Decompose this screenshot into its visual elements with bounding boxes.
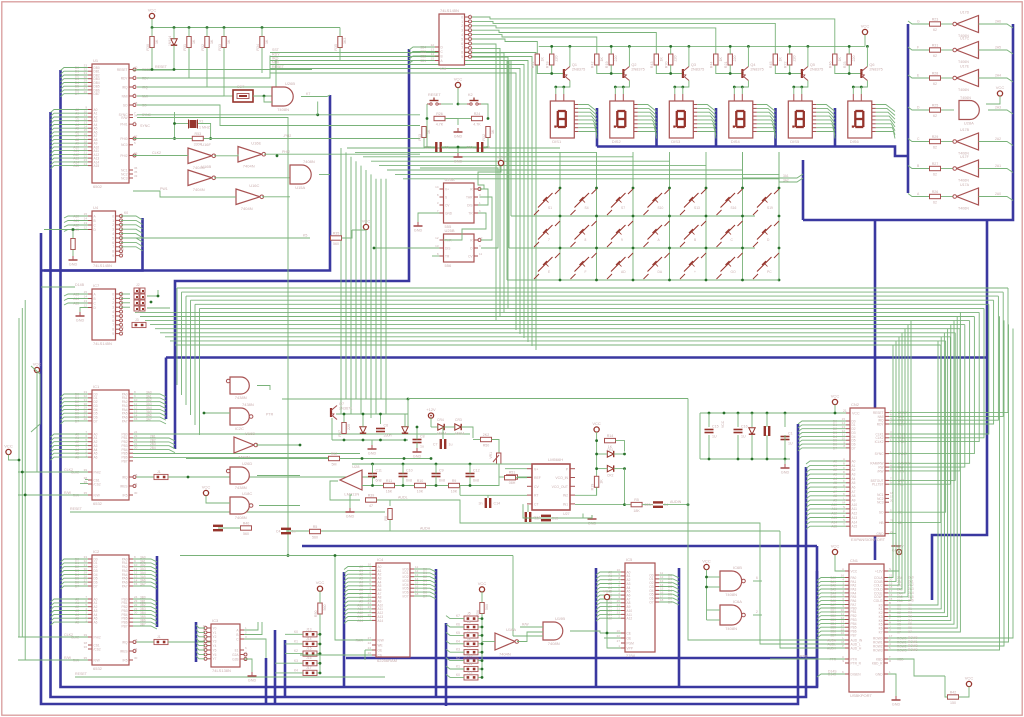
svg-text:F: F xyxy=(843,479,845,483)
resistor R23 220 xyxy=(847,54,851,65)
svg-text:C5: C5 xyxy=(444,146,449,150)
wire ram d5 xyxy=(414,588,436,591)
svg-text:G2A: G2A xyxy=(232,653,239,657)
bus display comb 4 xyxy=(774,108,777,147)
wire collector 1 xyxy=(615,81,629,88)
wire display vcc drop xyxy=(864,35,866,47)
svg-text:R19: R19 xyxy=(605,61,609,68)
wire riot1 PA0 xyxy=(133,394,166,397)
svg-text:U28A: U28A xyxy=(964,121,974,126)
wire IC2 D4 entry xyxy=(61,574,89,577)
svg-text:30: 30 xyxy=(134,491,138,495)
wire ic6 in 3 xyxy=(409,61,435,64)
resistor R24 4.7K xyxy=(472,116,483,120)
svg-text:U17A: U17A xyxy=(960,183,970,187)
wire J6 right xyxy=(478,626,482,628)
svg-text:J9: J9 xyxy=(467,645,471,649)
wire rom a9 xyxy=(596,607,621,610)
wire mid bundle left drop 2 xyxy=(185,296,187,405)
wire ic3 b xyxy=(244,622,262,635)
bus D left vertical xyxy=(61,70,818,687)
wire A1 entry xyxy=(51,113,89,116)
wire seg row mid G xyxy=(941,23,954,25)
junction base 3 xyxy=(729,72,732,75)
wire IC2 D3 entry xyxy=(61,571,89,574)
svg-text:PHI2: PHI2 xyxy=(94,470,101,474)
wire ic3 y5 xyxy=(196,647,205,650)
wire mid bundle left drop 0 xyxy=(176,288,178,385)
bus K7 vertical xyxy=(44,95,330,271)
svg-text:2N8375: 2N8375 xyxy=(631,68,644,72)
wire cn2 right 2 xyxy=(889,296,998,420)
wire display top pins 5 xyxy=(852,87,854,94)
svg-text:K2: K2 xyxy=(456,656,460,660)
svg-text:R40: R40 xyxy=(243,521,250,525)
svg-text:A11: A11 xyxy=(852,507,858,511)
svg-text:2: 2 xyxy=(112,223,114,227)
svg-text:PA7: PA7 xyxy=(122,419,128,423)
svg-text:C11: C11 xyxy=(376,469,382,473)
junction decouple xyxy=(708,412,711,415)
svg-text:1N914: 1N914 xyxy=(437,432,447,436)
svg-text:K7: K7 xyxy=(456,614,460,618)
svg-text:R10: R10 xyxy=(417,479,424,483)
svg-text:R18: R18 xyxy=(546,61,550,68)
wire cn2 vcc xyxy=(835,405,846,414)
svg-text:PB7: PB7 xyxy=(121,624,127,628)
ground lm566 xyxy=(591,515,593,519)
wire seg 31 xyxy=(757,108,776,115)
wire cn2 right 3 xyxy=(889,300,994,424)
wire center bundle vertical 7 xyxy=(375,179,377,414)
svg-text:U4: U4 xyxy=(93,205,99,210)
wire seg 05 xyxy=(578,124,597,131)
svg-text:R31: R31 xyxy=(932,43,939,47)
wire A9 entry xyxy=(51,143,89,146)
svg-text:GND: GND xyxy=(346,515,355,519)
wire pullup drop nmi xyxy=(137,48,224,97)
svg-text:U16D: U16D xyxy=(245,431,255,436)
power VCC ic6ab xyxy=(704,564,709,569)
svg-text:220n: 220n xyxy=(425,146,433,150)
capacitor C16 1u xyxy=(734,429,743,431)
svg-text:Y2: Y2 xyxy=(213,635,217,639)
wire riot1 PB2 xyxy=(133,446,175,449)
svg-text:2A5: 2A5 xyxy=(995,46,1001,50)
wire j2 right xyxy=(147,290,158,296)
wire seg 00 xyxy=(578,105,597,112)
wire diode top xyxy=(173,28,175,39)
inverter U16F 7404N xyxy=(188,148,212,164)
junction 555b xyxy=(373,247,376,250)
svg-text:62256RAM: 62256RAM xyxy=(377,658,397,663)
wire center bundle vertical 3 xyxy=(355,161,357,399)
wire riot1 iosz xyxy=(80,483,88,485)
wire ic3 abc xyxy=(244,622,258,630)
wire j13 col xyxy=(319,614,321,673)
display DIS5 xyxy=(788,101,812,138)
resistor R22 220 xyxy=(788,54,792,65)
wire in1 right xyxy=(625,504,632,506)
wire seg 50 xyxy=(876,105,895,112)
wire IC1 D2 entry xyxy=(61,402,89,405)
wire cn2 D4 xyxy=(798,436,846,439)
wire A2 entry xyxy=(51,117,89,120)
svg-text:R20: R20 xyxy=(665,61,669,68)
wire pullup top 4 xyxy=(261,28,263,37)
wire c14 up xyxy=(487,495,489,498)
wire display drive line 1 xyxy=(472,39,537,54)
svg-text:C9: C9 xyxy=(439,469,444,473)
wire ram a5 xyxy=(344,586,372,589)
resistor R25 62 xyxy=(930,108,941,112)
svg-text:74LS145N: 74LS145N xyxy=(93,263,112,268)
wire decouple drop b 738 xyxy=(737,435,739,459)
wire riot1 PA1 xyxy=(133,398,166,401)
wire cr1 right xyxy=(614,453,625,455)
wire IC1 A5 entry xyxy=(51,453,89,456)
svg-text:3n: 3n xyxy=(479,502,483,506)
gate U19D 7438N xyxy=(230,377,249,394)
svg-text:S13: S13 xyxy=(694,206,700,210)
svg-text:150: 150 xyxy=(950,701,956,705)
svg-text:7: 7 xyxy=(112,323,114,327)
wire u19b in2 xyxy=(513,635,543,637)
wire IC1 A2 entry xyxy=(51,442,89,445)
svg-text:9: 9 xyxy=(112,332,114,336)
resistor R40 560 xyxy=(241,526,252,530)
svg-text:R22: R22 xyxy=(784,61,788,68)
svg-text:10: 10 xyxy=(470,48,474,52)
svg-text:R19: R19 xyxy=(590,484,594,491)
svg-text:R23: R23 xyxy=(843,61,847,68)
svg-text:R35: R35 xyxy=(334,44,338,51)
wire r40 xyxy=(218,527,241,529)
bus display comb 2 xyxy=(655,108,658,147)
wire mid bundle left drop 1 xyxy=(181,292,183,395)
svg-text:Y6: Y6 xyxy=(213,653,217,657)
power VCC rom xyxy=(604,594,609,599)
wire seg row in E xyxy=(908,75,929,78)
svg-text:Q5: Q5 xyxy=(810,63,815,67)
wire rt wire xyxy=(488,494,527,496)
svg-text:1U: 1U xyxy=(741,435,746,439)
wire pullup top 1 xyxy=(188,28,190,37)
IC U25B 555 timer xyxy=(444,234,475,262)
resistor R39b 47 xyxy=(366,498,377,502)
wire seg 02 xyxy=(578,112,597,119)
wire cn1 row3 xyxy=(888,316,1000,650)
wire sync line xyxy=(137,114,420,116)
wire IC2 D7 entry xyxy=(61,586,89,589)
wire keypad row left riser 0 xyxy=(510,60,512,216)
wire seg 22 xyxy=(697,112,716,119)
svg-text:4.7K: 4.7K xyxy=(436,123,444,127)
wire 220 bottom 2 xyxy=(670,65,672,74)
diode CR1 1N914 xyxy=(607,451,613,457)
svg-text:GND: GND xyxy=(875,672,883,676)
svg-text:DIS6: DIS6 xyxy=(850,139,860,144)
svg-text:560: 560 xyxy=(333,242,339,246)
wire pullup drop rdy xyxy=(137,48,189,79)
power VCC reset circuit xyxy=(455,82,460,87)
svg-text:C7: C7 xyxy=(433,443,438,447)
svg-text:R23: R23 xyxy=(932,17,939,21)
wire D2 entry xyxy=(61,75,89,78)
wire 220 bottom 5 xyxy=(848,65,850,74)
wire cn2 right 14 xyxy=(889,345,941,522)
diode CR3 1N914 xyxy=(455,424,461,430)
svg-text:7: 7 xyxy=(461,46,463,50)
svg-text:U26D: U26D xyxy=(242,461,252,466)
wire keypad top bundle 5 xyxy=(387,169,743,171)
wire riot1 PB0 xyxy=(133,438,175,441)
wire rom d0 xyxy=(659,575,679,578)
svg-text:1u: 1u xyxy=(449,443,453,447)
wire cn2 A13 xyxy=(806,518,846,521)
wire r52 line2 xyxy=(340,458,432,460)
junction rw xyxy=(287,554,290,557)
bus segment driver vertical xyxy=(907,24,910,193)
switch B xyxy=(680,242,685,247)
wire r12 bottom xyxy=(483,138,488,148)
svg-text:RDY: RDY xyxy=(877,422,885,426)
wire J16 left xyxy=(275,662,303,664)
svg-text:K0: K0 xyxy=(294,630,298,634)
svg-text:C16: C16 xyxy=(741,425,748,429)
wire cn1 k7 xyxy=(888,312,960,632)
svg-text:A6: A6 xyxy=(94,456,98,460)
wire x1 left link xyxy=(175,123,189,125)
svg-text:B: B xyxy=(441,54,443,58)
svg-text:J11: J11 xyxy=(467,662,472,666)
svg-text:62: 62 xyxy=(933,146,937,150)
ground cn1 gnd xyxy=(895,696,897,700)
svg-text:2: 2 xyxy=(112,301,114,305)
wire decoder out 3 xyxy=(472,57,508,308)
svg-text:1K: 1K xyxy=(778,57,782,62)
svg-text:D7: D7 xyxy=(94,419,98,423)
wire r51 right xyxy=(518,476,541,478)
wire cn1 3B6 xyxy=(817,631,845,634)
resistor R12 1K xyxy=(486,127,490,138)
wire mid bundle 11 xyxy=(160,332,955,334)
resistor pullup R34 xyxy=(260,37,264,48)
wire c3 wires xyxy=(458,146,477,148)
wire center bundle vertical 5 xyxy=(365,170,367,399)
wire cn1 k2 xyxy=(888,333,944,613)
wire cn1 3B1 xyxy=(817,612,845,615)
svg-text:C1: C1 xyxy=(788,432,793,436)
wire 220 top 1 xyxy=(610,46,612,54)
inverter U17F 7406N xyxy=(957,160,979,177)
wire J9 right xyxy=(478,651,482,653)
svg-text:C10: C10 xyxy=(406,469,413,473)
svg-text:GND: GND xyxy=(248,679,257,683)
svg-text:IRES: IRES xyxy=(120,649,127,653)
wire ic2c in xyxy=(204,412,230,414)
wire D3 entry xyxy=(61,79,89,82)
wire cr2 left xyxy=(597,468,608,470)
svg-text:PC: PC xyxy=(767,270,772,274)
wire lm566 gnd link xyxy=(583,515,592,518)
junction in1 xyxy=(623,503,626,506)
svg-text:1K: 1K xyxy=(659,57,663,62)
svg-text:330n: 330n xyxy=(384,434,392,438)
svg-text:R31: R31 xyxy=(183,44,187,51)
svg-text:IRES: IRES xyxy=(120,484,127,488)
svg-text:F: F xyxy=(917,46,919,50)
wire cr wires3 xyxy=(461,427,473,438)
svg-text:IN1: IN1 xyxy=(563,503,568,507)
wire pullup rail xyxy=(152,27,340,29)
svg-text:560: 560 xyxy=(312,536,318,540)
wire cn2 A9 xyxy=(806,500,846,503)
switch 9 xyxy=(607,242,612,247)
bus ctrl left vertical xyxy=(41,233,798,704)
svg-text:6502: 6502 xyxy=(93,184,103,189)
svg-text:2N8375: 2N8375 xyxy=(750,68,763,72)
junction display rail 3 xyxy=(729,45,732,48)
svg-text:J10: J10 xyxy=(467,654,473,658)
jumper J10 xyxy=(464,658,478,663)
svg-text:2N8375: 2N8375 xyxy=(572,68,585,72)
svg-text:GND: GND xyxy=(368,452,377,456)
svg-text:R52: R52 xyxy=(331,452,338,456)
svg-text:6n8: 6n8 xyxy=(473,479,479,483)
wire rom ce xyxy=(600,632,621,634)
resistor R28 62 xyxy=(930,76,941,80)
wire decoder out 1 xyxy=(472,48,500,316)
junction q7 box xyxy=(343,413,346,416)
wire cn2 D5 xyxy=(798,440,846,443)
junction rom ce xyxy=(606,632,609,635)
wire J10 left xyxy=(446,658,464,661)
svg-text:J3: J3 xyxy=(135,318,139,322)
transistor Q4 2N3906 xyxy=(741,69,743,78)
svg-text:10K: 10K xyxy=(451,490,458,494)
wire u16d out xyxy=(256,444,300,446)
junction u4 d xyxy=(72,228,75,231)
wire seg 20 xyxy=(697,105,716,112)
power VCC riot2 xyxy=(6,449,11,454)
svg-text:6n8: 6n8 xyxy=(376,479,382,483)
gate U26D 7408N xyxy=(230,467,249,484)
wire seg 04 xyxy=(578,120,597,127)
wire lm311 out xyxy=(330,481,360,500)
svg-text:T406N: T406N xyxy=(958,60,969,64)
resistor R10 10K xyxy=(415,483,426,487)
display DIS6 xyxy=(848,101,872,138)
capacitor C6 330n xyxy=(376,428,385,430)
wire J6 left xyxy=(446,624,464,627)
svg-text:CR3: CR3 xyxy=(455,418,462,422)
jumper J8 xyxy=(464,641,478,646)
wire seg 30 xyxy=(757,105,776,112)
wire 555b tr xyxy=(432,255,440,257)
wire pullup top 2 xyxy=(206,28,208,37)
svg-text:A3: A3 xyxy=(852,472,856,476)
ground q7 xyxy=(371,445,373,449)
svg-text:+12V: +12V xyxy=(875,569,883,573)
svg-text:2: 2 xyxy=(756,610,758,614)
ground u4 xyxy=(72,256,74,260)
wire display drive line 6 xyxy=(472,17,835,54)
junction r14 xyxy=(595,439,598,442)
svg-text:T406N: T406N xyxy=(958,179,969,183)
display DIS3 xyxy=(669,101,693,138)
wire seg row mid D xyxy=(941,109,954,111)
power VCC cn2 xyxy=(832,399,837,404)
svg-text:R32: R32 xyxy=(201,44,205,51)
wire cn1 3B4 xyxy=(817,623,845,626)
svg-text:1K: 1K xyxy=(265,39,269,44)
bus ram addr vertical xyxy=(343,572,346,687)
switch GO xyxy=(717,274,722,279)
inverter U16D2 7404N xyxy=(188,170,212,186)
wire riot2 PB3 xyxy=(133,611,157,614)
wire IC1 D4 entry xyxy=(61,409,89,412)
junction ic2c xyxy=(203,412,206,415)
wire rom d3 xyxy=(659,587,679,590)
wire decouple drop 752 xyxy=(751,413,753,427)
switch F xyxy=(571,274,576,279)
svg-text:F: F xyxy=(585,270,587,274)
wire J15 left xyxy=(285,653,303,655)
svg-text:VCC: VCC xyxy=(852,412,860,416)
junction reset rail xyxy=(151,68,154,71)
wire riot1 PA5 xyxy=(133,413,166,416)
wire cn2 right 12 xyxy=(889,337,950,484)
junction base 1 xyxy=(610,72,613,75)
svg-text:THR: THR xyxy=(466,195,473,199)
wire riot2 PA0 xyxy=(133,559,157,562)
wire cn1 3A4 xyxy=(817,593,845,596)
svg-text:TR: TR xyxy=(468,211,473,215)
wire vco long rail xyxy=(408,398,688,400)
wire display drive line 2 xyxy=(472,35,597,54)
wire u16c out xyxy=(262,196,290,198)
wire seg row mid A xyxy=(941,196,954,198)
svg-text:S1: S1 xyxy=(548,206,552,210)
svg-text:R41: R41 xyxy=(531,61,535,68)
svg-text:K6: K6 xyxy=(456,623,460,627)
wire audh line xyxy=(286,530,780,532)
wire left edge v3b xyxy=(25,494,63,496)
wire cn1 k5 xyxy=(888,320,954,624)
svg-text:2A6: 2A6 xyxy=(995,20,1001,24)
wire ic7 out 2 xyxy=(121,302,130,304)
wire cn1 k6 xyxy=(888,316,957,628)
wire display top pins b 4 xyxy=(801,87,803,94)
wire ram a11 xyxy=(344,609,372,612)
wire u15a out xyxy=(319,174,330,176)
svg-text:6n8: 6n8 xyxy=(439,479,445,483)
wire cn1 col5 xyxy=(888,325,908,597)
svg-text:CR1: CR1 xyxy=(607,448,614,452)
resistor R52 5M xyxy=(329,456,340,460)
wire seg 32 xyxy=(757,112,776,119)
capacitor C10 xyxy=(399,473,408,475)
svg-text:4: 4 xyxy=(112,310,114,314)
resistor pullup R32 xyxy=(205,37,209,48)
wire IC2 A4 entry xyxy=(51,614,89,617)
wire center bundle vertical 1 xyxy=(345,152,347,399)
wire riot2 irq xyxy=(137,641,155,643)
wire seg 34 xyxy=(757,120,776,127)
wire seg 10 xyxy=(638,105,657,112)
svg-text:7404N: 7404N xyxy=(241,206,253,211)
